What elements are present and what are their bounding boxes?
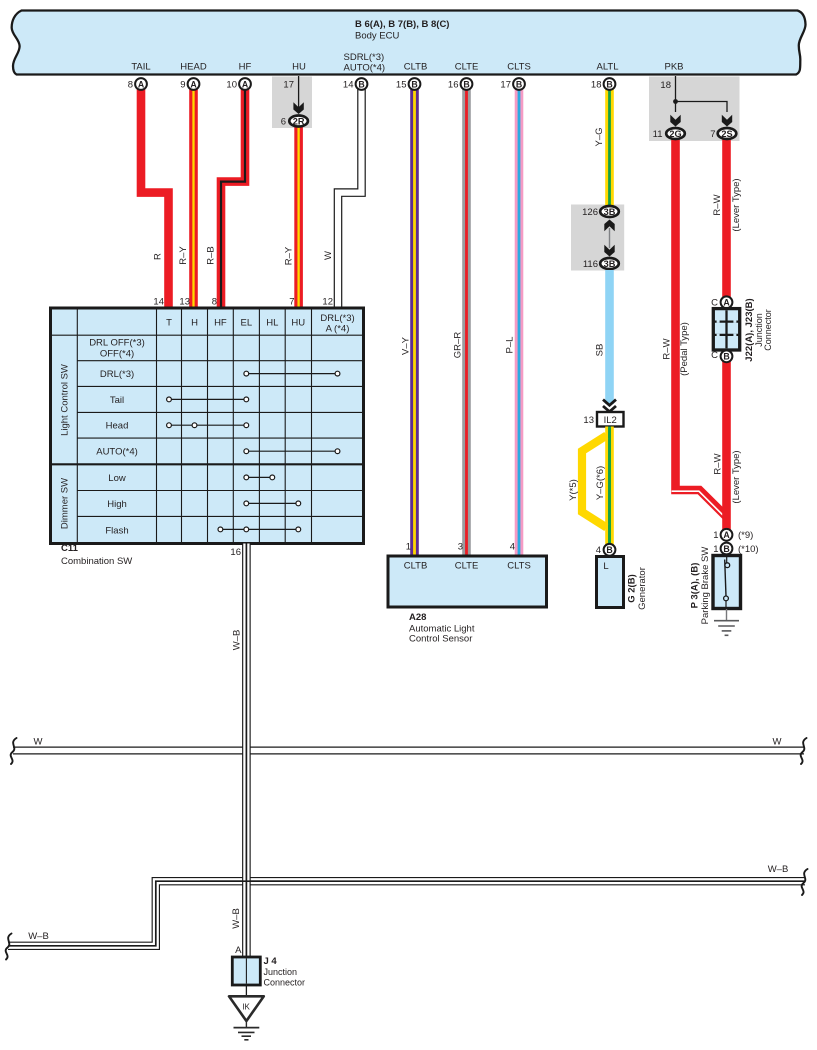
ground symbol parking brake [714,620,739,622]
ground point triangle IK [229,996,264,1021]
svg-text:Connector: Connector [264,978,306,988]
svg-text:116: 116 [583,259,598,270]
connector IL2 [597,412,624,427]
wire Y-G(*6) stripe over branch joints [608,428,611,545]
svg-text:J 4: J 4 [264,956,278,967]
svg-text:17: 17 [500,79,511,90]
svg-text:W: W [323,251,334,260]
svg-text:Combination SW: Combination SW [61,556,132,567]
switch contact top [725,563,730,568]
svg-text:16: 16 [448,79,459,90]
pin 1 B parking brake (*10) [721,543,733,555]
connector oval 2R [289,116,308,127]
contact row Head [169,424,246,426]
connector oval 3B 116 [600,258,619,269]
connector oval 2G [666,128,685,139]
svg-text:B: B [606,79,612,89]
wire V-Y CLTB pin15 to A28 pin1 [410,89,419,556]
svg-text:Dimmer SW: Dimmer SW [60,478,71,529]
arrow up to 3B 126 [604,220,614,232]
pin 17 B CLTS [513,78,525,90]
svg-text:(Lever Type): (Lever Type) [731,450,742,503]
svg-text:A: A [235,945,242,956]
svg-text:DRL(*3): DRL(*3) [320,313,354,324]
arrow down to 3B 116 [604,245,614,257]
svg-text:Junction: Junction [264,967,298,977]
pin 8 A TAIL [135,78,147,90]
arrow into 2G [670,115,680,127]
switch stub bottom [725,601,727,608]
svg-text:SDRL(*3): SDRL(*3) [344,52,385,63]
pin 18 B ALTL [604,78,616,90]
svg-text:R–Y: R–Y [284,246,295,265]
switch lever [725,560,726,597]
svg-text:14: 14 [153,297,164,308]
wire W-B horizontal bus right to left-down [8,881,805,946]
pin 9 A HEAD [188,78,200,90]
svg-text:3B: 3B [604,207,616,217]
contact row Flash [220,528,298,530]
ground lead J4 [245,985,247,996]
switch stub top [726,557,728,563]
svg-text:CLTB: CLTB [404,561,428,572]
wire W-B C11 pin16 to J4 [242,544,251,958]
ground symbol J4 [245,1021,247,1027]
break symbol W left [11,738,17,764]
wire Y-G ALTL pin18 to 3B 126 [605,89,614,206]
wire R-W lever type from 2S to P3 pin A [722,137,731,530]
svg-text:A28: A28 [409,612,426,623]
pin 16 B CLTE [461,78,473,90]
svg-text:HL: HL [266,318,278,329]
arrow into 2R [293,102,303,114]
table section divider Light Control / Dimmer [51,463,364,465]
svg-text:EL: EL [240,318,252,329]
contact row High [246,502,298,504]
svg-text:8: 8 [128,79,133,90]
component A28 Automatic Light Control Sensor [388,556,547,607]
svg-text:A (*4): A (*4) [326,324,350,335]
wire W SDRL pin14 to C11 pin12 [338,89,362,309]
table column lines [77,308,311,544]
svg-text:Tail: Tail [110,395,124,406]
svg-text:12: 12 [322,297,333,308]
Body ECU band B 6(A), B 7(B), B 8(C) [12,11,806,75]
svg-text:10: 10 [226,79,237,90]
svg-text:R–Y: R–Y [178,246,189,265]
svg-text:B: B [411,79,417,89]
link shaft between 3B connectors [609,228,611,248]
svg-text:18: 18 [591,79,602,90]
svg-text:SB: SB [595,344,606,357]
wire Y-G(*6) IL2 to generator [605,427,614,546]
svg-text:C11: C11 [61,543,79,554]
svg-text:OFF(*4): OFF(*4) [100,349,134,360]
svg-text:L: L [603,561,608,572]
contact row Tail [169,398,246,400]
wire PKB pin18 lead [675,76,677,112]
svg-text:C: C [711,298,718,309]
ground lead parking brake [726,609,728,620]
svg-text:AUTO(*4): AUTO(*4) [96,447,138,458]
contact row AUTO(*4) [246,450,337,452]
svg-text:11: 11 [653,129,663,140]
wire P-L CLTS pin17 to A28 pin4 [515,89,524,556]
svg-text:W–B: W–B [231,908,242,929]
svg-text:HF: HF [239,62,252,73]
pin 14 B SDRL [356,78,368,90]
svg-text:Generator: Generator [637,567,648,610]
svg-text:PKB: PKB [664,62,683,73]
svg-text:A: A [723,298,730,308]
wire R-B HF pin10 to C11 pin8 [221,89,245,309]
svg-text:H: H [191,318,198,329]
break symbol W-B right [802,869,808,895]
svg-text:2G: 2G [669,129,681,139]
break symbol W-B left [6,934,12,960]
svg-text:7: 7 [289,297,294,308]
svg-text:R–W: R–W [713,453,724,474]
svg-text:B: B [723,352,729,362]
svg-text:A: A [138,79,145,89]
svg-text:DRL OFF(*3): DRL OFF(*3) [89,338,145,349]
svg-text:126: 126 [582,207,598,218]
svg-text:IK: IK [242,1003,250,1012]
svg-text:B 6(A), B 7(B), B 8(C): B 6(A), B 7(B), B 8(C) [355,19,449,30]
svg-text:15: 15 [396,79,407,90]
svg-text:GR–R: GR–R [453,332,464,359]
redraw W-B bus stripe over crossing [200,880,300,882]
svg-text:13: 13 [583,415,594,426]
svg-text:9: 9 [180,79,185,90]
svg-text:W–B: W–B [232,630,243,651]
svg-text:CLTS: CLTS [507,62,531,73]
svg-text:(Pedal Type): (Pedal Type) [679,322,690,376]
svg-text:ALTL: ALTL [596,62,618,73]
component P 3(A), (B) Parking Brake SW [713,556,741,609]
svg-text:7: 7 [710,129,715,140]
junction connector J22(A), J23(B) [721,296,733,308]
svg-text:2S: 2S [721,129,732,139]
svg-text:AUTO(*4): AUTO(*4) [344,63,386,74]
svg-text:B: B [463,79,469,89]
svg-text:Parking Brake SW: Parking Brake SW [700,547,711,625]
svg-text:(*10): (*10) [738,544,759,555]
contact row DRL(*3) [246,373,337,375]
svg-text:1: 1 [713,530,718,541]
wire R-Y HEAD pin9 to C11 pin13 [189,89,198,309]
shield box HU option [272,77,312,129]
wire R-W pedal type from 2G [676,137,727,517]
break symbol W right [801,738,807,764]
wire branch to 2S [676,102,728,113]
svg-text:(*9): (*9) [738,530,753,541]
pin 4 B generator [604,544,616,556]
svg-text:14: 14 [343,79,354,90]
svg-text:Flash: Flash [105,525,128,536]
svg-text:R–B: R–B [206,246,217,264]
svg-text:V–Y: V–Y [401,336,412,355]
svg-text:Light Control SW: Light Control SW [60,364,71,436]
junction connector J4 [232,957,260,985]
svg-text:W: W [34,737,43,748]
svg-text:CLTS: CLTS [507,561,531,572]
junction dot PKB split [673,99,678,104]
svg-text:HU: HU [292,62,306,73]
svg-text:CLTE: CLTE [455,561,479,572]
svg-text:Control Sensor: Control Sensor [409,634,472,645]
svg-text:CLTE: CLTE [455,62,479,73]
pin 15 B CLTB [409,78,421,90]
svg-text:W–B: W–B [28,931,49,942]
svg-text:B: B [516,79,522,89]
svg-text:4: 4 [596,545,601,556]
svg-text:R–W: R–W [662,338,673,359]
svg-text:P 3(A), (B): P 3(A), (B) [690,563,701,609]
svg-text:A: A [242,79,249,89]
svg-text:T: T [166,318,172,329]
component C11 Combination SW table [51,308,364,544]
svg-text:A: A [190,79,197,89]
chevron arrows into IL2 [603,400,616,406]
pin 10 A HF [239,78,251,90]
switch contact bottom [724,596,729,601]
svg-text:3B: 3B [604,259,616,269]
wire Y(*5) branch loop [582,436,607,528]
svg-text:8: 8 [212,297,217,308]
wire GR-R CLTE pin16 to A28 pin3 [462,89,471,556]
svg-text:G 2(B): G 2(B) [627,574,638,603]
svg-text:High: High [107,499,127,510]
svg-text:4: 4 [510,542,515,553]
svg-text:R: R [153,253,164,260]
contact row Low [246,476,272,478]
table row lines [51,335,364,516]
svg-text:C: C [711,350,718,361]
svg-text:13: 13 [179,297,190,308]
svg-text:W–B: W–B [768,864,789,875]
svg-text:Body ECU: Body ECU [355,31,399,42]
shield box 3B connectors [571,205,624,271]
wire SB 3B 116 to IL2 [605,270,614,404]
svg-text:P–L: P–L [505,337,516,354]
svg-text:Y(*5): Y(*5) [568,479,579,501]
svg-text:HU: HU [291,318,305,329]
wire pin17 lead to 2R [298,76,300,108]
svg-text:6: 6 [281,116,286,127]
svg-text:Head: Head [106,421,129,432]
svg-text:1: 1 [406,542,411,553]
wire R TAIL pin8 to C11 pin14 [141,89,169,309]
svg-text:Y–G(*6): Y–G(*6) [595,466,606,500]
svg-text:CLTB: CLTB [404,62,428,73]
svg-text:DRL(*3): DRL(*3) [100,369,134,380]
shield box PKB option [649,77,740,142]
component G 2(B) Generator [597,557,624,608]
svg-text:Low: Low [108,473,126,484]
svg-text:16: 16 [230,547,241,558]
connector oval 3B 126 [600,206,619,217]
svg-text:18: 18 [660,80,671,91]
svg-text:HF: HF [214,318,227,329]
svg-text:2R: 2R [293,116,305,126]
svg-text:TAIL: TAIL [131,62,150,73]
arrow into 2S [722,115,732,127]
connector oval 2S [718,128,737,139]
svg-text:B: B [358,79,364,89]
svg-text:HEAD: HEAD [180,62,207,73]
svg-text:IL2: IL2 [604,415,617,426]
svg-text:3: 3 [458,542,463,553]
svg-text:B: B [723,544,729,554]
pin 1 A parking brake (*9) [721,529,733,541]
svg-text:1: 1 [713,544,718,555]
svg-text:R–W: R–W [712,194,723,215]
svg-text:Y–G: Y–G [594,127,605,146]
wire R-Y HU 2R to C11 pin7 [294,125,303,309]
svg-text:17: 17 [283,80,294,91]
svg-text:Connector: Connector [763,309,773,351]
svg-text:(Lever Type): (Lever Type) [731,178,742,231]
svg-text:W: W [773,737,782,748]
svg-text:A: A [723,530,730,540]
wire W horizontal bus [13,747,804,755]
svg-text:B: B [606,545,612,555]
